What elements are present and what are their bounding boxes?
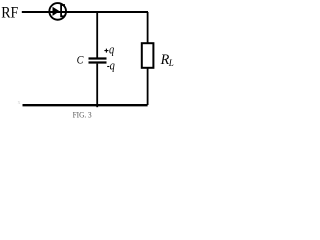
svg-text:q: q (110, 59, 115, 73)
svg-text:x: x (18, 100, 21, 106)
svg-text:RF: RF (1, 5, 18, 22)
svg-text:C: C (77, 53, 85, 67)
svg-text:q: q (109, 42, 114, 56)
svg-text:L: L (168, 58, 174, 68)
svg-text:FIG. 3: FIG. 3 (73, 110, 92, 119)
